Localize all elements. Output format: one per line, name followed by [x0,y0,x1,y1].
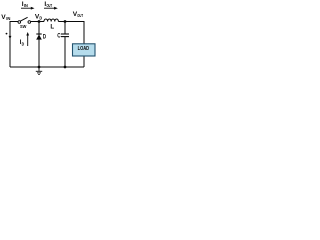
wire capacitor branch bottom [64,37,66,67]
svg-text:IN: IN [6,16,10,21]
wire switch to V_D node to inductor [31,21,44,23]
wire capacitor branch top [64,22,66,35]
wire input: left rail from V_IN corner down and top segment to switch [10,22,18,68]
wire load bottom to rail [83,56,85,67]
svg-text:LOAD: LOAD [78,46,90,52]
load box [73,44,96,56]
svg-text:D: D [43,34,46,41]
ground [36,67,42,75]
svg-text:D: D [39,15,42,20]
inductor L [44,19,58,22]
current arrow I_D (up) [20,32,30,46]
junction dot capacitor bottom [64,66,67,69]
svg-text:C: C [57,32,61,39]
label V_OUT [73,11,83,18]
label V_D [35,14,42,21]
node V_D junction dot [38,20,41,23]
svg-text:OUT: OUT [47,3,53,8]
junction dot diode bottom [38,66,41,69]
label V_IN [1,14,10,21]
node V_OUT junction dot (capacitor tap) [64,20,67,23]
switch SW [18,17,31,30]
svg-text:D: D [22,41,25,46]
wire inductor to V_OUT corner down to load top [58,22,84,45]
wire bottom ground rail [10,66,84,68]
svg-text:SW: SW [20,24,27,30]
svg-text:OUT: OUT [77,13,83,18]
diode D symbol [36,34,46,41]
capacitor C symbol [57,32,69,39]
svg-text:IN: IN [24,3,28,8]
current arrow I_OUT [44,1,58,9]
current arrow I_IN [21,1,35,10]
wire diode branch [38,22,40,68]
svg-text:L: L [50,23,54,30]
current arrow on input wire (down) [6,31,12,40]
